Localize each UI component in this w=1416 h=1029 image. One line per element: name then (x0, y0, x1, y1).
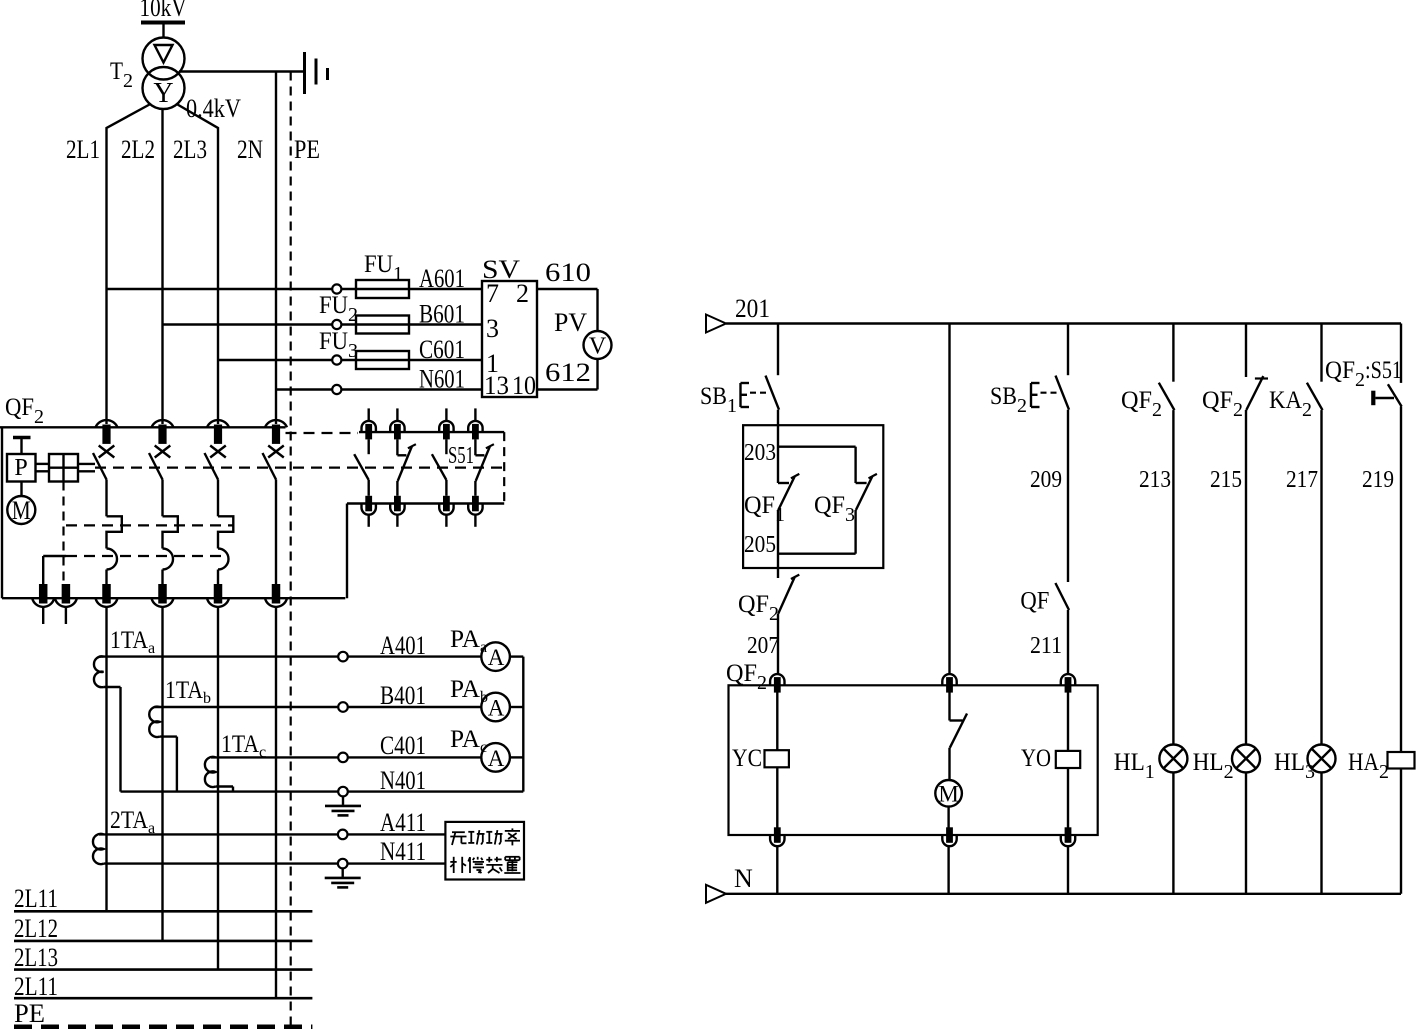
svg-text:PAc: PAc (450, 726, 487, 756)
svg-text:B401: B401 (380, 681, 426, 710)
svg-text:A: A (488, 696, 505, 721)
fuse FU1 (356, 280, 409, 298)
QF2 thermal release pole 1 (107, 516, 122, 548)
label FU2 (319, 292, 358, 326)
fuse FU3 (356, 351, 409, 369)
wire branch A upper (777, 324, 779, 376)
wire HL3 branch mid (1320, 410, 1322, 744)
svg-text:QF2: QF2 (726, 660, 767, 694)
svg-text:N411: N411 (380, 837, 426, 866)
label QF1 (744, 492, 785, 526)
QF2 mechanism dashed drop (62, 482, 64, 585)
wire A411 (99, 830, 445, 840)
pin 2 (516, 279, 529, 308)
wire HL1 branch mid (1172, 410, 1174, 744)
node N (706, 864, 753, 903)
pushbutton SB1 (741, 376, 780, 410)
label PAc (450, 726, 487, 756)
QF2 pole L3 link down (217, 480, 219, 517)
svg-text:2: 2 (516, 279, 529, 308)
QF2 pole N trip cross symbol (268, 446, 284, 458)
svg-text:QF2: QF2 (1121, 387, 1162, 421)
svg-text:2TAa: 2TAa (110, 807, 155, 837)
wire HL3 branch lower (1320, 773, 1322, 894)
transformer T2 (143, 38, 185, 110)
S51 switch 2 (NC blade) (397, 439, 416, 495)
QF2 mechanism box (49, 454, 78, 482)
label SB2 (990, 383, 1027, 417)
wire HL1 branch lower (1172, 773, 1174, 894)
QF2 upper drawout contact pole L3 (207, 420, 229, 444)
label 217 (1286, 467, 1318, 493)
S51 top contact 2 (390, 408, 404, 439)
QF2 pole L1 link down (105, 480, 107, 517)
wire inner loop bottom (778, 510, 856, 554)
QF2 linkage dashed line 1 (95, 467, 504, 469)
svg-text:612: 612 (545, 358, 591, 387)
label QF2:S51 (1325, 357, 1402, 391)
wire YO branch to N (1067, 846, 1069, 894)
svg-text:10: 10 (512, 371, 536, 400)
anti-pumping box (743, 425, 883, 568)
label N601 (419, 365, 465, 394)
QF2 magnetic release coil pole 1 (107, 549, 118, 585)
svg-text:PV: PV (554, 308, 587, 337)
pin 13 (484, 371, 509, 400)
plug-in contact bottom (YC branch) (770, 827, 784, 846)
label 610 (545, 258, 591, 287)
contact QF2 NC (HL2) (1246, 376, 1268, 410)
label YO (1021, 745, 1051, 772)
svg-text:0.4kV: 0.4kV (186, 94, 241, 123)
coil YC (765, 691, 789, 830)
S51 top contact 3 (439, 408, 453, 439)
svg-text:SB1: SB1 (700, 383, 737, 417)
wire 2L2 phase lower (161, 607, 163, 941)
QF2 lower drawout contact N (265, 584, 287, 607)
QF2 aux contact stubs (43, 608, 66, 625)
label 2L3 (173, 135, 207, 164)
lamp HL1 (1159, 745, 1187, 773)
node 201 (706, 294, 770, 333)
svg-text:2N: 2N (237, 135, 263, 164)
svg-text:207: 207 (747, 633, 779, 659)
svg-text:2L2: 2L2 (121, 135, 155, 164)
ground at N401 (325, 796, 361, 815)
wire 612 (537, 359, 598, 390)
plug-in contact top (M branch) (942, 674, 956, 693)
QF2 thermal release pole 3 (218, 516, 233, 548)
svg-text:PAa: PAa (450, 626, 487, 656)
wire A401 (99, 652, 482, 662)
QF2 upper drawout contact pole N (265, 420, 287, 444)
label 203 (744, 440, 776, 466)
CT 1TAa return (104, 687, 121, 792)
svg-text:1TAa: 1TAa (110, 627, 155, 657)
label T2 (110, 58, 133, 92)
label QF (1020, 588, 1049, 615)
QF2 pole L1 trip cross symbol (99, 446, 115, 458)
svg-text:A401: A401 (380, 631, 426, 660)
wire HL3 branch upper (1320, 324, 1322, 382)
bus PE (14, 999, 312, 1028)
svg-text:217: 217 (1286, 467, 1318, 493)
QF2 aux riser (42, 556, 44, 584)
label 1TAc (221, 731, 266, 761)
wire N bus (726, 893, 1401, 895)
label N401 (380, 766, 426, 795)
label 205 (744, 532, 776, 558)
QF2 pole N link down (275, 480, 277, 585)
contact KA2 (HL3) (1307, 383, 1323, 410)
svg-text:213: 213 (1139, 467, 1171, 493)
svg-text:SB2: SB2 (990, 383, 1027, 417)
label 219 (1362, 467, 1394, 493)
svg-text:209: 209 (1030, 467, 1062, 493)
S51 switch 1 (NO blade) (354, 439, 369, 495)
label 612 (545, 358, 591, 387)
wire HL2 branch upper (1245, 324, 1247, 378)
reactive power compensation device box (445, 822, 524, 880)
QF2 pole N blade (263, 453, 277, 480)
svg-text:2L13: 2L13 (14, 943, 58, 972)
ground at N411 (325, 868, 361, 887)
QF2 lower drawout contact L1 (96, 584, 118, 607)
svg-text:1TAb: 1TAb (165, 677, 211, 707)
wire PE line (dashed) (290, 72, 292, 1027)
QF2 mechanism links (36, 464, 96, 471)
svg-text:A: A (488, 746, 505, 771)
label HL3 (1274, 749, 1315, 783)
S51 switch 3 (NO blade) (432, 439, 447, 495)
wire HL2 branch mid (1245, 410, 1247, 745)
CT 1TAb (149, 707, 159, 737)
svg-text:M: M (938, 782, 958, 807)
breaker QF2 enclosure top line (0, 426, 286, 428)
svg-text:2L11: 2L11 (14, 972, 58, 1001)
wire 2L3 phase upper (178, 105, 219, 425)
wire HL2 branch lower (1245, 773, 1247, 894)
svg-text:N401: N401 (380, 766, 426, 795)
label QF2 (breaker) (5, 394, 44, 428)
lamp HL3 (1308, 745, 1336, 773)
wire 2L3 phase lower (217, 607, 219, 969)
contact QF3 (856, 474, 877, 510)
label B401 (380, 681, 426, 710)
svg-text:PAb: PAb (450, 676, 488, 706)
label SB1 (700, 383, 737, 417)
contact QF1 (778, 474, 799, 510)
svg-text:QF2: QF2 (5, 394, 44, 428)
svg-text:S51: S51 (448, 443, 474, 469)
label 213 (1139, 467, 1171, 493)
CT 2TAa (93, 834, 104, 864)
svg-text:13: 13 (484, 371, 509, 400)
CT 1TAc (205, 757, 216, 787)
svg-text:203: 203 (744, 440, 776, 466)
plug-in contact top (YC branch) (770, 674, 784, 693)
svg-text:KA2: KA2 (1269, 387, 1312, 421)
QF2 pole L2 trip cross symbol (155, 446, 171, 458)
svg-text:3: 3 (486, 314, 499, 343)
svg-text:HA2: HA2 (1348, 749, 1389, 783)
plug-in contact bottom (M branch) (942, 827, 956, 846)
label 1TAa (110, 627, 155, 657)
CT 1TAa (94, 656, 104, 687)
svg-text:T2: T2 (110, 58, 133, 92)
svg-text:PE: PE (14, 999, 45, 1028)
QF2 pole L1 blade (93, 453, 107, 480)
motor M (spring charge) (935, 748, 962, 831)
label HL1 (1114, 749, 1155, 783)
wire HA2 branch lower (1400, 769, 1402, 894)
label KA2 (1269, 387, 1312, 421)
label 2N (237, 135, 263, 164)
svg-text:YO: YO (1021, 745, 1051, 772)
QF2 lower drawout contact L3 (207, 584, 229, 607)
label PAb (450, 676, 488, 706)
label 0.4kV (186, 94, 241, 123)
label B601 (419, 300, 465, 329)
S51 bank corner to QF2 bottom (346, 504, 348, 599)
wire M branch to N (947, 846, 949, 894)
svg-text:610: 610 (545, 258, 591, 287)
S51 switch 4 (NC blade) (475, 439, 494, 495)
contact QF2 (HL1) (1159, 383, 1175, 410)
control wiring box (729, 685, 1098, 835)
wire C601 row (218, 355, 482, 364)
wire HA2 branch mid (1400, 407, 1402, 753)
QF2 linkage dashed line 3 (43, 555, 229, 557)
plug-in contact top (YO branch) (1061, 674, 1075, 693)
wire SB1 to box (777, 410, 779, 483)
S51 bottom contact 2 (390, 496, 404, 527)
wire 2N neutral upper (275, 72, 277, 425)
meter switch SV box (482, 281, 537, 397)
pin 1 (486, 349, 499, 378)
label 215 (1210, 467, 1242, 493)
label QF2 (HL1) (1121, 387, 1162, 421)
wire N401 (121, 787, 524, 797)
svg-text:QF2:S51: QF2:S51 (1325, 357, 1402, 391)
svg-text:HL2: HL2 (1193, 749, 1234, 783)
label QF3 (814, 492, 855, 526)
ammeter PAc (481, 743, 523, 772)
bus 2L11 (second) (14, 972, 312, 1001)
label 2L1 (66, 135, 100, 164)
svg-text:10kV: 10kV (140, 0, 187, 22)
contact QF (YO branch) (1055, 583, 1069, 610)
wire 201 bus (726, 322, 1401, 324)
label A401 (380, 631, 426, 660)
svg-text:205: 205 (744, 532, 776, 558)
label FU1 (364, 251, 403, 285)
QF2 motor M (7, 482, 35, 526)
svg-text:211: 211 (1030, 633, 1062, 659)
svg-text:2L11: 2L11 (14, 884, 58, 913)
label 207 (747, 633, 779, 659)
label 2TAa (110, 807, 155, 837)
wire feed M branch (948, 324, 950, 675)
QF2 release P box (7, 454, 36, 482)
svg-text:V: V (589, 334, 607, 360)
svg-text:QF2: QF2 (738, 591, 779, 625)
svg-text:P: P (14, 455, 27, 481)
S51 bank bottom line (347, 502, 504, 504)
bus 2L12 (14, 914, 312, 943)
S51 bottom contact 3 (439, 496, 453, 527)
label 211 (1030, 633, 1062, 659)
svg-text:C401: C401 (380, 731, 426, 760)
wire QF1 lower (777, 510, 779, 578)
pin 7 (486, 279, 499, 308)
wire feed YO branch upper (1067, 324, 1069, 376)
svg-text:C601: C601 (419, 335, 465, 364)
meters common return wire (522, 657, 524, 792)
CT 1TAc return (216, 787, 234, 792)
wire inner loop top (778, 447, 856, 483)
S51 top contact 1 (362, 408, 376, 439)
CT 1TAb return (160, 737, 177, 792)
wire 2L1 phase lower (105, 607, 107, 911)
svg-text:B601: B601 (419, 300, 465, 329)
svg-text:M: M (12, 496, 31, 525)
label QF2 (branch A) (738, 591, 779, 625)
wire YC branch to N (776, 846, 778, 894)
pushbutton SB2 (1031, 376, 1069, 410)
coil YO (1056, 691, 1080, 830)
lamp HL2 (1232, 745, 1260, 773)
svg-text:2L12: 2L12 (14, 914, 58, 943)
svg-text:A: A (488, 645, 505, 670)
bus 2L11 (14, 884, 312, 913)
QF2 pole L3 blade (205, 453, 219, 480)
wire N411 (104, 859, 446, 869)
bus 2L13 (14, 943, 312, 972)
QF2 operating handle (13, 438, 31, 455)
QF2 magnetic release coil pole 3 (218, 549, 229, 585)
10kV supply label and bar (140, 0, 187, 38)
contact QF2 aux (M branch) (950, 691, 968, 748)
wire HL1 branch upper (1172, 324, 1174, 382)
label 209 (1030, 467, 1062, 493)
contact QF2 (branch A) (778, 575, 799, 614)
QF2 lower drawout contact aux2 (55, 584, 77, 607)
label PE (294, 135, 320, 164)
label YC (732, 745, 762, 772)
label HL2 (1193, 749, 1234, 783)
label QF2 (plug row) (726, 660, 767, 694)
QF2 upper drawout contact pole L2 (152, 420, 174, 444)
svg-text:N601: N601 (419, 365, 465, 394)
svg-text:Y: Y (153, 78, 173, 109)
wire 2N lower (275, 607, 277, 998)
wire B601 row (163, 320, 483, 329)
svg-text:N: N (734, 864, 753, 893)
svg-text:A601: A601 (419, 264, 465, 293)
label A411 (380, 808, 426, 837)
S51 bank dashed feed (286, 432, 359, 434)
wire C401 (211, 753, 482, 763)
wire transformer to ground (179, 70, 303, 72)
wire HA2 branch upper (1400, 324, 1402, 383)
wire N601 row (276, 385, 482, 394)
ammeter PAb (481, 693, 523, 722)
svg-text:215: 215 (1210, 467, 1242, 493)
label QF2 (HL2) (1202, 387, 1243, 421)
wire A601 row (107, 284, 483, 293)
S51 bank right dashed edge (503, 432, 505, 503)
svg-text:7: 7 (486, 279, 499, 308)
voltmeter PV (584, 331, 612, 360)
S51 bank top line (359, 431, 504, 433)
wire 610 (537, 289, 598, 331)
wire QF to plug (1067, 610, 1069, 674)
S51 bottom contact 4 (468, 496, 482, 527)
svg-text:HL1: HL1 (1114, 749, 1155, 783)
label PV (554, 308, 587, 337)
svg-text:QF3: QF3 (814, 492, 855, 526)
svg-text:201: 201 (735, 294, 770, 323)
svg-text:219: 219 (1362, 467, 1394, 493)
label S51 (448, 443, 474, 469)
pin 3 (486, 314, 499, 343)
label SV (482, 255, 520, 284)
label N411 (380, 837, 426, 866)
breaker QF2 enclosure left edge (1, 427, 3, 598)
QF2 upper drawout contact pole L1 (96, 420, 118, 444)
wire B401 (155, 702, 482, 712)
contact QF2:S51 (1371, 384, 1401, 406)
wire branch A to plug (777, 614, 779, 675)
label 1TAb (165, 677, 211, 707)
ammeter PAa (481, 642, 523, 671)
alarm HA2 (1388, 752, 1415, 769)
QF2 pole L2 link down (161, 480, 163, 517)
pin 10 (512, 371, 536, 400)
label HA2 (1348, 749, 1389, 783)
label PAa (450, 626, 487, 656)
label 2L2 (121, 135, 155, 164)
fuse FU2 (356, 316, 409, 334)
QF2 magnetic release coil pole 2 (163, 549, 174, 585)
label C601 (419, 335, 465, 364)
svg-text:2L1: 2L1 (66, 135, 100, 164)
S51 bottom contact 1 (362, 496, 376, 527)
svg-text:PE: PE (294, 135, 320, 164)
ground (system earth) (305, 52, 328, 94)
QF2 lower drawout contact aux1 (32, 584, 54, 607)
label FU3 (319, 328, 358, 362)
svg-text:QF2: QF2 (1202, 387, 1243, 421)
QF2 linkage dashed line 2 (66, 524, 234, 526)
plug-in contact bottom (YO branch) (1061, 827, 1075, 846)
svg-text:QF: QF (1020, 588, 1049, 615)
S51 top contact 4 (468, 408, 482, 439)
svg-text:A411: A411 (380, 808, 426, 837)
breaker QF2 enclosure bottom line (2, 597, 345, 599)
label C401 (380, 731, 426, 760)
wire 2L2 phase upper (161, 109, 163, 424)
QF2 pole L3 trip cross symbol (210, 446, 226, 458)
wire SB2 down (1067, 410, 1069, 582)
label A601 (419, 264, 465, 293)
QF2 lower drawout contact L2 (152, 584, 174, 607)
svg-text:2L3: 2L3 (173, 135, 207, 164)
QF2 pole L2 blade (149, 453, 163, 480)
wire 2L1 phase upper (107, 105, 150, 425)
QF2 thermal release pole 2 (163, 516, 178, 548)
